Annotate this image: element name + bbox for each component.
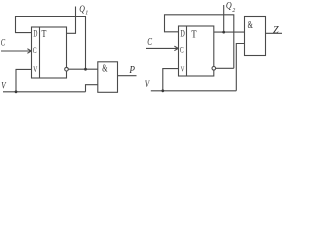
and-gate G2 box (245, 17, 266, 56)
wire: Q1 output stub (67, 7, 76, 34)
wire: Q2 output stub (223, 5, 225, 32)
U1 pin column divider (39, 27, 41, 78)
svg-text:V: V (145, 80, 150, 90)
wire: Q2 to G2 upper input (214, 31, 245, 33)
svg-text:C: C (180, 46, 184, 55)
junction dot V2 rail (161, 89, 164, 92)
junction dot Q2 node (222, 31, 225, 34)
inversion bubble U2 Qbar (212, 67, 216, 71)
arrowhead C1 clock (27, 49, 31, 54)
wire: V rail left (3, 91, 86, 93)
wire: rail to G2 lower input (236, 44, 244, 91)
svg-text:&: & (102, 63, 107, 74)
wire: Q2-bar feedback to D input (165, 15, 234, 69)
junction dot V rail left (15, 90, 18, 93)
svg-text:D: D (33, 29, 37, 39)
svg-text:V: V (181, 65, 185, 73)
svg-text:&: & (248, 20, 253, 31)
svg-text:T: T (191, 28, 197, 40)
wire: V rail right (151, 90, 237, 92)
arrowhead C2 clock (174, 46, 178, 51)
wire: rail to G1 lower input (86, 85, 98, 92)
svg-text:C: C (33, 46, 37, 55)
and-gate G1 box (98, 62, 118, 93)
junction dot Q1bar node (84, 68, 87, 71)
svg-text:D: D (180, 29, 185, 39)
svg-text:Q: Q (226, 1, 232, 11)
inversion bubble U1 Qbar (65, 67, 69, 71)
svg-text:2: 2 (232, 8, 235, 14)
wire: P output (118, 75, 137, 77)
svg-text:1: 1 (85, 10, 88, 16)
wire: Z output (266, 32, 283, 34)
wire: Q2-bar from bubble (216, 67, 234, 69)
wire: V input (16, 69, 32, 91)
wire: V input right (163, 69, 179, 91)
wire: Q1-bar feedback to D input (16, 17, 86, 70)
wire: C clock input (1, 50, 31, 52)
U2 pin column divider (186, 26, 188, 76)
svg-text:P: P (128, 65, 135, 76)
flip-flop U2 box (179, 26, 214, 76)
wire: Q1-bar to G1 upper input (68, 68, 97, 70)
svg-text:V: V (33, 65, 37, 74)
svg-text:C: C (1, 39, 6, 49)
svg-text:C: C (147, 37, 152, 48)
flip-flop U1 box (32, 27, 67, 78)
svg-text:V: V (1, 82, 6, 92)
wire: C clock input right (146, 47, 178, 49)
svg-text:T: T (42, 28, 47, 40)
svg-text:Z: Z (273, 25, 279, 36)
